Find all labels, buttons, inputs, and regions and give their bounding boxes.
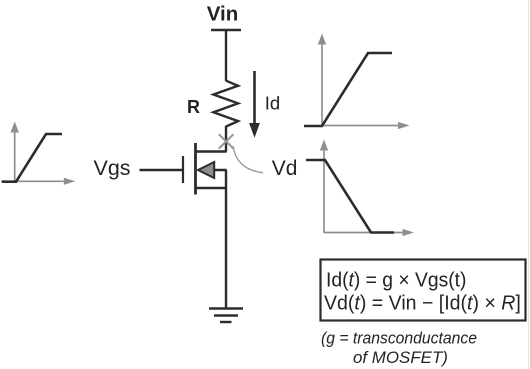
- body arrow line: [210, 169, 227, 171]
- Vd graph y-axis: [323, 149, 325, 234]
- Vgs graph y-axis: [14, 130, 16, 183]
- svg-text:Vd: Vd: [272, 157, 298, 180]
- wire resistor bottom to drain node: [225, 126, 227, 152]
- Vgs graph x-axis: [1, 180, 65, 182]
- ground symbol: [209, 309, 243, 323]
- svg-text:Vd(t) = Vin − [Id(t) × R]: Vd(t) = Vin − [Id(t) × R]: [324, 292, 521, 314]
- Vd graph curve: [306, 160, 394, 233]
- graph: Id waveform (top right): [304, 34, 410, 130]
- svg-text:Vgs: Vgs: [94, 156, 131, 180]
- gate bar: [182, 156, 184, 183]
- graph: Vgs input waveform (left): [1, 122, 75, 185]
- svg-text:Id: Id: [265, 92, 280, 113]
- page right edge scan line: [528, 0, 530, 369]
- svg-text:R: R: [187, 97, 200, 117]
- svg-text:Id(t) = g × Vgs(t): Id(t) = g × Vgs(t): [326, 269, 466, 291]
- svg-text:of MOSFET): of MOSFET): [353, 348, 448, 367]
- body arrowhead: [198, 162, 214, 178]
- power rail bar Vin: [211, 29, 241, 31]
- channel bar: [194, 143, 197, 195]
- Vgs graph curve: [2, 134, 62, 182]
- wire source to ground: [225, 170, 227, 309]
- Vd graph x-axis: [324, 232, 404, 234]
- equation box: [321, 260, 526, 321]
- svg-text:Vin: Vin: [207, 2, 239, 25]
- current arrow Id: [253, 71, 256, 124]
- Id graph curve: [304, 53, 392, 126]
- resistor R: [213, 81, 238, 127]
- svg-text:(g = transconductance: (g = transconductance: [321, 329, 477, 347]
- Id graph x-axis: [322, 125, 399, 127]
- wire Vin rail to resistor top: [225, 30, 227, 81]
- drain lead: [195, 150, 227, 152]
- source lead: [195, 187, 227, 189]
- Id graph y-axis: [321, 43, 323, 127]
- gate lead wire from Vgs: [140, 169, 184, 171]
- pointer arc from drain node to Vd label: [233, 146, 263, 173]
- transistor Q1 (n-MOSFET): [140, 143, 227, 195]
- graph: Vd waveform (bottom right): [306, 140, 414, 237]
- node X mark (drain node): [219, 134, 234, 148]
